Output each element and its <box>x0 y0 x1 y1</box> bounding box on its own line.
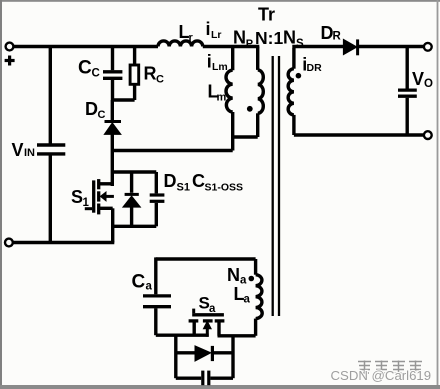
svg-text:V: V <box>412 69 424 89</box>
wire: auxiliary loop top bar <box>156 257 256 260</box>
svg-text:Tr: Tr <box>258 5 275 25</box>
label iLm <box>207 52 228 74</box>
svg-text:V: V <box>12 140 24 160</box>
capacitor Ca <box>143 257 171 335</box>
diode DC <box>104 100 121 186</box>
svg-text:Lr: Lr <box>211 29 222 41</box>
svg-text:i: i <box>206 19 211 39</box>
auxiliary winding Na / La <box>256 259 263 336</box>
wire: top rail from Lr to transformer primary <box>203 45 259 48</box>
transformer Tr primary winding NP (right rail) <box>258 47 264 138</box>
label NS <box>283 28 304 51</box>
wire: primary bottom bar <box>231 135 258 138</box>
wire: DR cathode to output terminal <box>358 45 424 48</box>
wire: DS1/CS1 bottom bar <box>113 225 157 228</box>
svg-text:m: m <box>217 92 227 104</box>
label Lm <box>208 82 227 104</box>
wire: DS1/CS1 top bar <box>112 170 156 173</box>
label iLr <box>206 19 222 41</box>
label Sa <box>199 294 217 316</box>
svg-text:r: r <box>189 32 194 44</box>
capacitor VO <box>398 47 417 136</box>
label iDR <box>302 55 322 75</box>
svg-text:C: C <box>92 68 100 80</box>
label CC <box>78 58 100 80</box>
capacitor CC <box>103 47 122 101</box>
svg-text:S: S <box>71 187 83 207</box>
capacitor VIN <box>37 47 65 243</box>
svg-text:CSDN @Carl619: CSDN @Carl619 <box>331 368 432 383</box>
svg-text:O: O <box>424 78 433 90</box>
svg-text:N: N <box>227 265 240 285</box>
capacitor CS1-OSS <box>150 172 165 226</box>
wire: secondary bottom rail <box>294 133 424 136</box>
svg-text:C: C <box>132 271 146 292</box>
svg-text:N: N <box>233 28 246 48</box>
svg-text:C: C <box>78 58 92 79</box>
transformer Tr primary: magnetizing inductance Lm (left rail) <box>226 47 233 151</box>
label NP <box>233 28 253 51</box>
wire: aux bottom bar right (Sa drain to Na) <box>218 334 256 337</box>
+ polarity mark <box>5 56 15 66</box>
diode of Sa gate network <box>176 346 233 361</box>
label Ca <box>132 271 153 292</box>
svg-text:N: N <box>283 28 296 48</box>
label DS1 <box>164 171 190 194</box>
inductor Lr <box>158 41 203 47</box>
transformer core <box>273 56 279 316</box>
capacitor of Sa gate network <box>176 371 233 386</box>
wire: secondary top rail <box>292 45 343 48</box>
svg-text:S1: S1 <box>177 182 190 194</box>
label Na <box>227 265 247 286</box>
svg-text:1: 1 <box>83 197 90 209</box>
transistor Sa (MOSFET) <box>189 309 225 337</box>
label RC <box>144 64 165 86</box>
wire: junction down-left to snubber <box>174 335 177 378</box>
output terminal (top-right) <box>424 43 432 51</box>
svg-text:P: P <box>246 38 253 50</box>
svg-text:D: D <box>85 99 98 119</box>
svg-text:Lm: Lm <box>212 61 228 73</box>
wire: junction down-right to snubber <box>231 336 234 378</box>
label La <box>234 284 251 305</box>
input terminal + (top-left) <box>6 43 14 51</box>
wire: CC/RC bottom join bar <box>113 98 135 101</box>
label VIN <box>12 140 36 160</box>
svg-text:a: a <box>209 303 216 315</box>
svg-text:R: R <box>144 64 157 84</box>
watermark <box>331 361 432 384</box>
diode DS1 (body diode) <box>123 172 140 226</box>
output terminal (bottom-right) <box>424 131 432 139</box>
label S1 <box>71 187 90 209</box>
node: primary phase dot <box>247 106 253 112</box>
svg-text:N:1: N:1 <box>255 28 283 48</box>
svg-text:a: a <box>244 293 251 305</box>
wire: switch node to transformer primary bottom <box>112 149 232 152</box>
wire: top rail from input terminal to Lr <box>13 45 158 48</box>
resistor RC <box>130 47 139 101</box>
svg-text:S1-OSS: S1-OSS <box>205 182 244 194</box>
label DR <box>321 23 342 43</box>
svg-text:R: R <box>333 31 342 43</box>
label Lr <box>179 22 194 44</box>
svg-text:C: C <box>98 109 106 121</box>
node: secondary phase dot <box>296 73 302 79</box>
diode DR <box>343 39 357 55</box>
wire: aux bottom bar left (Ca to Sa source) <box>156 334 209 337</box>
svg-text:a: a <box>146 281 153 293</box>
wire: bottom rail from lower terminal to S1 source <box>13 241 115 244</box>
svg-text:S: S <box>296 38 304 50</box>
label CS1-OSS <box>192 171 243 194</box>
svg-text:C: C <box>192 171 205 191</box>
label DC <box>85 99 106 121</box>
output-side lower terminal (bottom-left) <box>5 239 13 247</box>
node: auxiliary phase dot <box>249 276 255 282</box>
transistor S1 (MOSFET) <box>85 179 114 242</box>
svg-text:IN: IN <box>24 147 35 159</box>
transformer secondary winding NS <box>288 48 294 135</box>
svg-text:C: C <box>156 74 164 86</box>
svg-text:D: D <box>164 171 177 191</box>
svg-text:DR: DR <box>307 62 323 74</box>
label VO <box>412 69 433 90</box>
